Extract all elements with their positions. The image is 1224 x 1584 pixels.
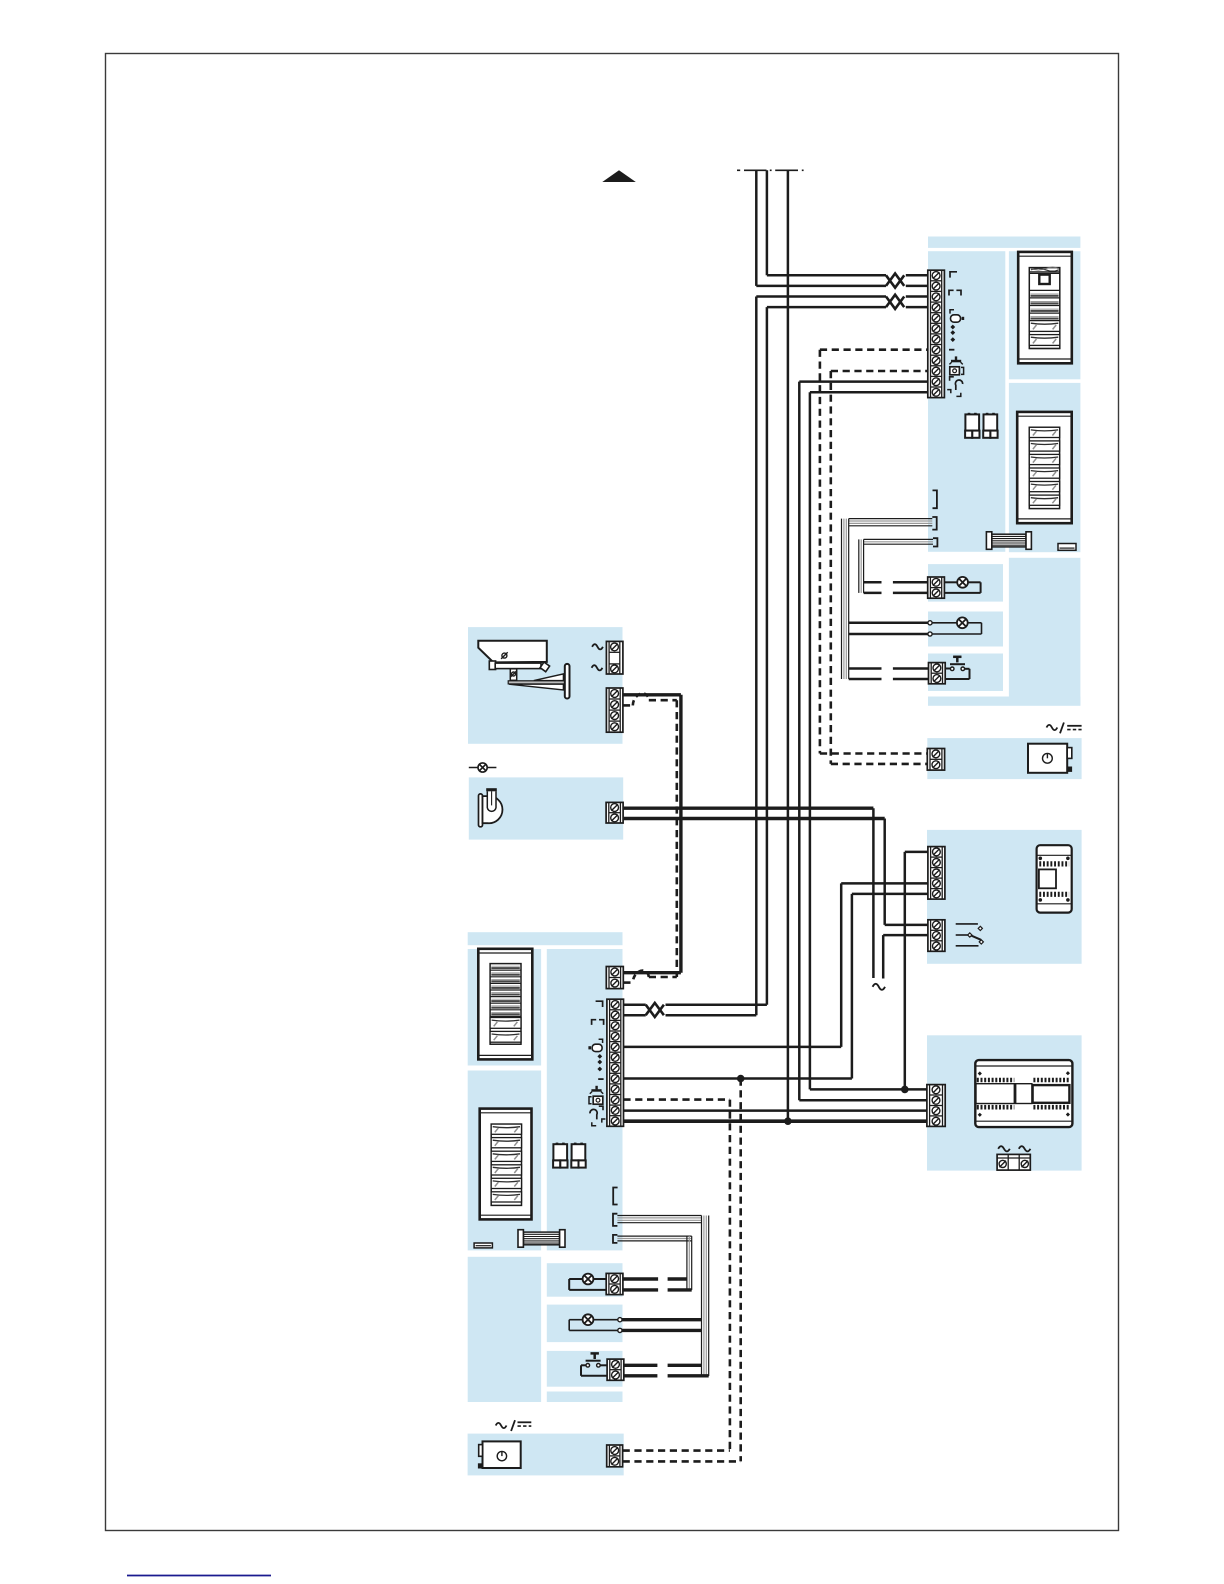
EP2 button module 3 [1029,454,1059,464]
configuration jumper J3 [556,1143,559,1146]
cover plate left [474,1243,492,1248]
dashed wire TS2-t10 to local PSU [623,1098,730,1101]
actuator block background mid-right [927,830,1082,964]
cctv bracket [510,669,516,681]
EP3 button row2 [490,1031,521,1042]
TS2 icon column mirrored [588,1001,605,1126]
stair lamp contacts right [928,621,932,625]
cable to lamp circuit left [617,1235,691,1237]
distributor DIN module [975,1060,1072,1127]
door push button right [945,668,950,670]
twisted pair symbol top1 [886,275,904,287]
north arrow marker [602,170,636,182]
TS1 icon lock pill [951,315,961,322]
lock lamp wires left [623,1277,658,1280]
entrance panel block background center-left [468,932,623,945]
TS2 junction block top [606,967,623,989]
power supply block background bottom-left [468,1434,624,1476]
connector socket low [933,538,937,546]
bus wire downfeed pair2 b [767,306,886,309]
EP1 button row1 [1029,321,1060,332]
power supply block background right [927,738,1081,779]
cable to lock circuits left [617,1215,701,1217]
ribbon cable connector left [523,1232,559,1245]
wire TS1-t12 to distributor [810,391,928,394]
bus wire TS2-t12 to distributor-t4 [623,1119,927,1123]
stair lamp left [569,1319,582,1321]
stair lamp contacts left [618,1318,622,1322]
wire camera-t1 to TS2 block [623,693,681,696]
AC terminal block distributor [997,1154,1030,1170]
dashed wire TS1-t10 to power supply [831,370,928,373]
TS1 icon t4 corner [950,310,954,314]
stair lamp wires right [849,622,928,625]
junction distributor-t1 [901,1086,909,1094]
TS1 icon camera [950,367,960,375]
wire actuator-t1 down to distributor-t1 [905,851,928,854]
cctv wall plate [565,664,570,699]
EP2 button module 2 [1029,441,1059,451]
distributor block background bottom-right [927,1035,1082,1170]
twisted pair symbol top2 [886,297,904,309]
page border frame [106,54,1119,1531]
door button terminal block left [607,1359,624,1380]
EP1 camera window [1039,275,1049,284]
TS1 icon lock release [950,377,954,381]
camera block background [468,627,623,744]
power supply unit right [1028,744,1067,773]
junction TS2-t8 tap [737,1075,745,1083]
wire TS2-t1 bus [623,1003,645,1006]
bus wire riser pair1 b [755,170,758,286]
external lamp symbol [469,767,497,769]
wire TS2-t11 to distributor-t3 [623,1109,927,1112]
EP4 button module 3 [491,1151,521,1161]
terminal strip TS2 [607,999,624,1126]
EP1 module slots [1029,289,1060,291]
EP4 button module 4 [491,1165,521,1175]
wire sounder-t1 AC feed [624,807,874,810]
lock lamp right [944,581,957,583]
wire actuator-t4 to TS2-t5 [841,882,928,885]
connector socket top left [613,1188,617,1205]
junction bus riser at TS2-t12 [784,1117,792,1125]
AC source symbol [873,984,885,990]
door button terminal block right [929,663,946,684]
cctv camera housing [478,641,547,663]
cctv camera body [489,661,495,670]
TS1 icon diamonds [950,325,955,330]
bus wire riser main [787,170,790,1121]
EP2 button module 4 [1029,468,1059,478]
configuration jumper J1 [968,413,971,416]
configuration jumper J4 [574,1143,577,1146]
AC tildes distributor [998,1146,1010,1151]
EP2 button module 1 [1029,427,1059,437]
AC-DC symbol right [1047,725,1058,730]
configuration jumper J2 [986,413,989,416]
TS1 icon t1 bus-in [950,272,957,278]
EP2 button module 6 [1029,495,1059,505]
footer link underline [127,1575,271,1577]
connector socket mid [932,517,936,530]
lock lamp terminal block left [606,1273,623,1294]
actuator DIN module [1037,845,1072,912]
EP3 speaker slots [490,969,521,971]
wire TS1-t11 to distributor [799,380,928,383]
EP4 button module 1 [491,1124,521,1134]
EP4 button module 6 [491,1192,521,1202]
door button wires right [849,667,882,670]
camera AC terminal block [606,641,623,674]
wire TS2-t2 bus [623,1014,645,1017]
sounder horn [479,794,483,827]
wire relay-t2 AC feed [883,934,928,937]
TS1 icon valve [955,356,957,360]
dashed wire TS2-t8 to local PSU [739,1079,742,1462]
connector socket top [933,490,937,508]
EP4 button module 2 [491,1138,521,1148]
lock lamp terminal block right [864,581,882,584]
cable to lamp circuit [864,538,933,540]
EP1 button row2 [1029,335,1060,346]
relay terminal strip 3 [928,920,945,952]
TS1 icon t2t3 riser [949,290,954,295]
bus continuation break line top [737,169,740,171]
entrance panel EP4 [480,1109,532,1220]
twisted pair symbol bottom [646,1005,664,1017]
entrance panel EP1 with camera [1018,252,1072,363]
EP1 speaker [1029,271,1060,273]
EP2 button module 5 [1029,482,1059,492]
TS1 icon t8 dash [949,349,954,351]
bus wire downfeed pair2 a [756,295,886,298]
camera AC tildes [592,644,603,649]
bus wire riser pair1 a [766,170,769,275]
dashed wire TS1-t8 to power supply [820,348,928,351]
camera terminal strip 4 [606,688,623,732]
power supply unit left [483,1441,521,1468]
actuator terminal strip 5 [928,847,945,900]
EP3 button row1 [490,1018,521,1029]
AC-DC symbol left [496,1423,507,1428]
wire actuator-t5 to TS2-t8 [852,893,928,896]
power supply terminal block right [927,749,944,771]
power supply terminal block left [607,1445,623,1467]
door push button left [581,1364,586,1366]
stair lamp right [932,622,957,624]
ribbon cable connector right [992,534,1026,547]
lock lamp left [569,1278,582,1280]
sounder block background [469,777,623,839]
stair lamp wires left [622,1318,702,1321]
sounder terminal block [606,802,623,823]
entrance panel EP2 [1017,412,1071,523]
connector socket low left [613,1235,617,1243]
door button wires left [624,1364,658,1367]
EP4 button module 5 [491,1178,521,1188]
cable to lock circuits [849,518,933,520]
wire sounder-t2 to relay-t1 [624,817,885,820]
connector socket mid left [613,1214,617,1226]
entrance panel EP3 [478,949,532,1060]
riser block background top-right [928,237,1080,248]
distributor terminal strip 4 [927,1085,945,1127]
dashed wire camera-t2 to TS2 block [623,704,633,707]
changeover contact symbol [956,923,978,925]
cover plate right [1058,544,1076,551]
terminal strip TS1 [928,270,945,397]
